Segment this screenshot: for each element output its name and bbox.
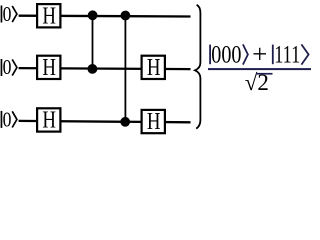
svg-text:000: 000 bbox=[211, 42, 241, 69]
ket |0> qubit 2 bbox=[1, 55, 17, 79]
gate H q3 col1 bbox=[37, 108, 60, 134]
gate H q2 col1 bbox=[37, 55, 60, 81]
control dot q3 bbox=[120, 117, 130, 127]
wire qubit 2 bbox=[19, 68, 191, 69]
wire qubit 1 bbox=[19, 15, 191, 18]
svg-text:0: 0 bbox=[3, 55, 12, 79]
svg-text:+: + bbox=[252, 40, 267, 69]
svg-text:H: H bbox=[42, 55, 56, 81]
gate H q3 col2 bbox=[142, 109, 165, 135]
fraction bar bbox=[208, 68, 311, 70]
svg-text:111: 111 bbox=[274, 42, 300, 69]
control dot q1 second bbox=[121, 11, 131, 21]
ket |0> qubit 3 bbox=[1, 107, 17, 131]
svg-text:H: H bbox=[42, 108, 56, 134]
wire CZ vertical q1-q3 bbox=[124, 16, 126, 122]
denominator sqrt(2) bbox=[245, 70, 273, 95]
svg-text:H: H bbox=[42, 3, 56, 29]
gate H q1 col1 bbox=[37, 3, 60, 29]
node output state numerator |000>+|111> bbox=[209, 40, 308, 69]
wire CZ vertical q1-q2 bbox=[92, 16, 94, 69]
control dot q1 first bbox=[88, 10, 98, 20]
gate H q2 col2 bbox=[142, 55, 165, 81]
svg-text:H: H bbox=[147, 55, 161, 81]
wire qubit 3 bbox=[19, 121, 191, 122]
svg-text:0: 0 bbox=[3, 2, 12, 26]
output grouping brace bbox=[195, 5, 200, 129]
svg-text:H: H bbox=[147, 109, 161, 135]
control dot q2 bbox=[88, 64, 98, 74]
ket |0> qubit 1 bbox=[1, 2, 17, 26]
svg-text:0: 0 bbox=[3, 107, 12, 131]
